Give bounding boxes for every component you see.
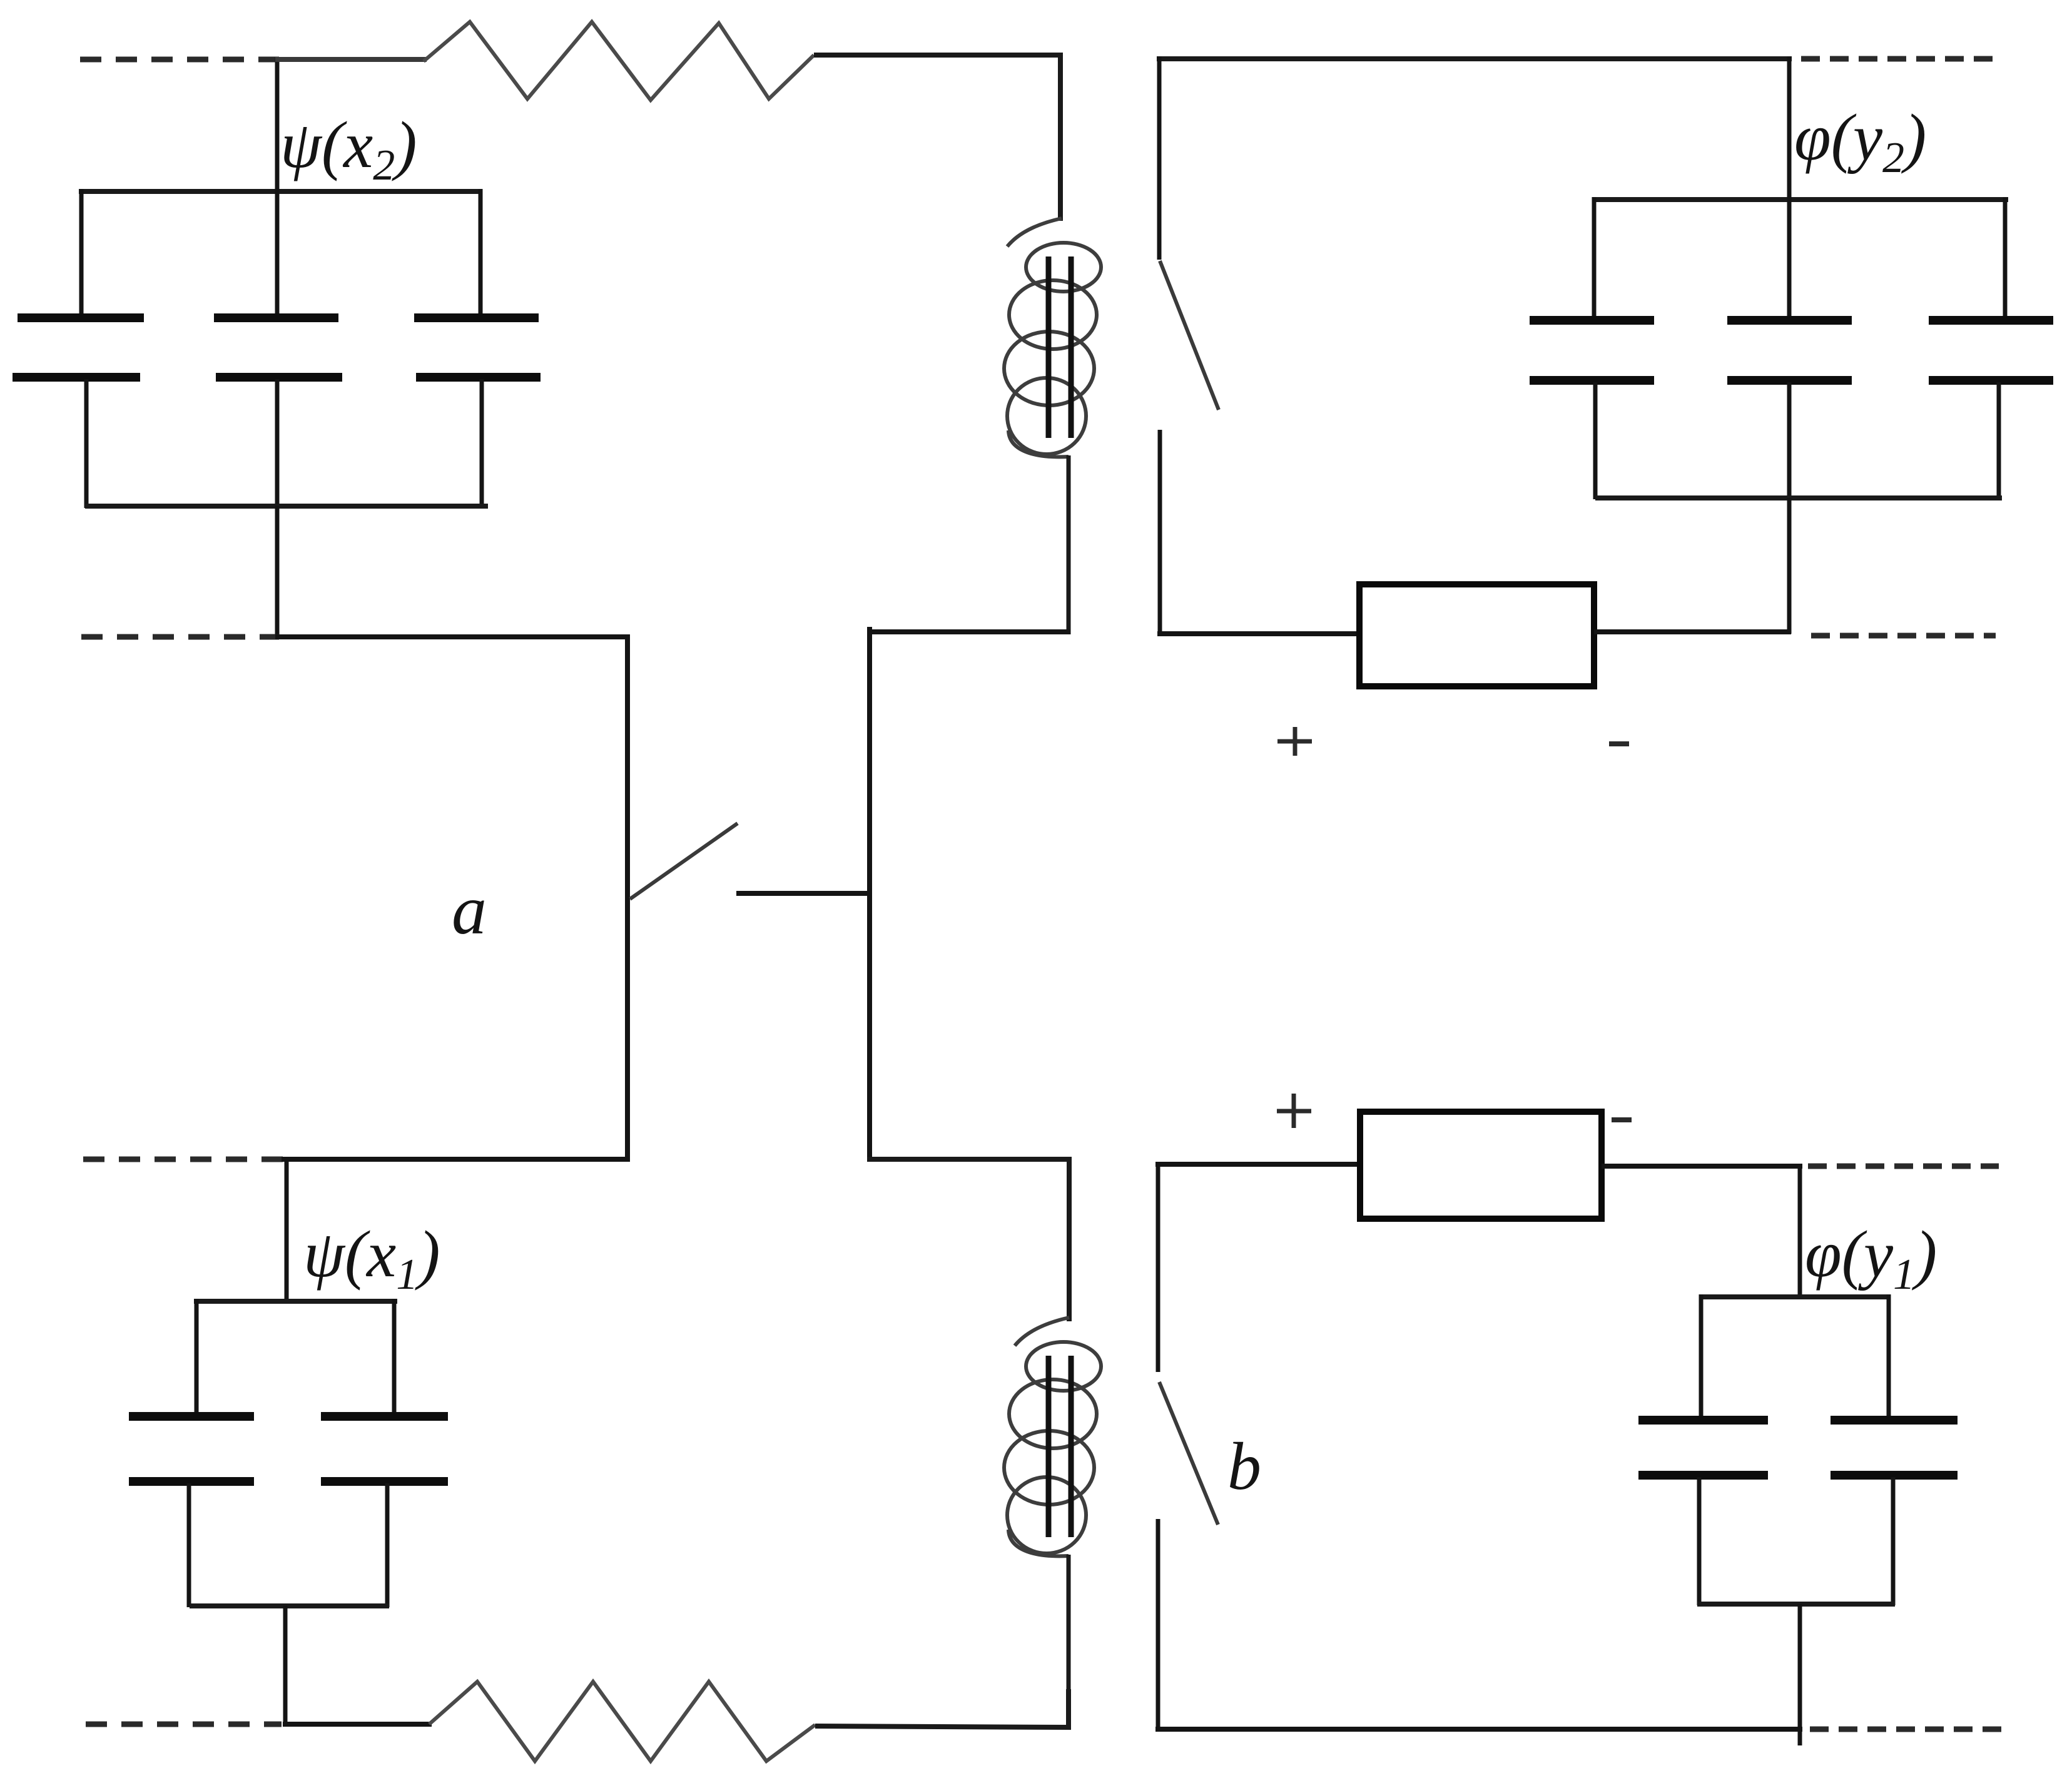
- wire (phi(y2) bottom lead): [1787, 498, 1792, 634]
- capacitor C1: [13, 189, 144, 508]
- svg-text:ψ(x2): ψ(x2): [280, 108, 417, 190]
- wire (top bus, node to resistor): [275, 57, 427, 62]
- svg-text:φ(y2): φ(y2): [1794, 101, 1926, 182]
- wire (dashed continuation, top-right): [1801, 56, 1997, 62]
- wire (bank top bus): [194, 1299, 397, 1304]
- label - (box 2): [1612, 1117, 1632, 1122]
- wire (dashed continuation, bottom-left): [86, 1722, 282, 1727]
- wire (box 2 to phi(y1) lead): [1602, 1164, 1802, 1169]
- label b: [1227, 1430, 1261, 1504]
- label phi(y2): [1794, 101, 1926, 182]
- wire (inductor L2 bottom lead): [1067, 1555, 1071, 1729]
- label psi(x2): [280, 108, 417, 190]
- wire (switch a right rail to inductor L2 corner): [867, 1159, 1069, 1321]
- capacitor C4: [1530, 197, 1654, 499]
- label phi(y1): [1805, 1217, 1937, 1299]
- label - (box 1): [1609, 741, 1629, 746]
- resistor R1: [424, 22, 814, 100]
- wire (bank bottom bus): [85, 504, 488, 509]
- capacitor C8: [321, 1299, 448, 1607]
- box (resistive element 2): [1360, 1112, 1602, 1219]
- wire (switch a right rail to inductor L1): [867, 629, 1070, 634]
- switch b: [1158, 1162, 1218, 1732]
- wire (dashed continuation, left): [81, 634, 279, 640]
- wire (bank bottom bus): [1697, 1602, 1895, 1607]
- wire (psi(x1) bottom lead): [283, 1606, 288, 1726]
- wire (bank top bus): [1699, 1294, 1891, 1299]
- wire (bank bottom bus): [190, 1603, 389, 1608]
- node phi(y1) top junction: [1798, 1166, 1802, 1299]
- wire (box 1 to phi(y2) lead): [1594, 629, 1791, 634]
- wire (resistor R1 to inductor L1 corner): [814, 55, 1060, 221]
- inductor L2: [1004, 1318, 1101, 1556]
- wire (dashed continuation, left): [83, 1157, 283, 1162]
- capacitor C6: [1929, 197, 2053, 499]
- label psi(x1): [303, 1217, 440, 1299]
- wire (switch b bottom bus): [1155, 1727, 1802, 1732]
- wire (bank bottom bus): [1595, 495, 2002, 500]
- wire (dashed continuation, right): [1811, 633, 1996, 639]
- wire (inductor L1 bottom lead): [1067, 455, 1071, 634]
- wire (dashed continuation, right): [1808, 1164, 1999, 1169]
- label a: [452, 871, 487, 949]
- box (resistive element 1): [1359, 584, 1594, 686]
- inductor L1: [1004, 218, 1101, 457]
- svg-text:φ(y1): φ(y1): [1805, 1217, 1937, 1299]
- switch a: [627, 627, 871, 1162]
- wire (bank top bus): [79, 189, 482, 194]
- wire (left bus to switch a): [275, 634, 629, 639]
- node psi(x1) top junction: [285, 1159, 289, 1303]
- node phi(y2) top junction: [1787, 56, 1792, 201]
- capacitor C3: [414, 189, 541, 508]
- wire (switch b to box 2): [1155, 1162, 1363, 1167]
- label + (box 2): [1277, 1094, 1311, 1128]
- capacitor C9: [1638, 1294, 1768, 1605]
- wire (bus to resistor R2): [283, 1722, 432, 1727]
- wire (bus to switch a left rail): [282, 1157, 630, 1162]
- wire (resistor R2 to inductor L2 corner): [815, 1689, 1069, 1727]
- wire (dashed continuation, bottom-right): [1810, 1727, 2002, 1732]
- capacitor C5: [1727, 197, 1852, 499]
- switch S1 (upper right, open): [1159, 56, 1219, 636]
- wire (dashed continuation, top-left): [80, 57, 279, 63]
- svg-text:ψ(x1): ψ(x1): [303, 1217, 440, 1299]
- node psi(x2) top junction: [275, 57, 280, 194]
- capacitor C10: [1831, 1294, 1958, 1605]
- capacitor C7: [129, 1299, 254, 1607]
- svg-text:a: a: [452, 871, 487, 949]
- capacitor C2: [214, 189, 342, 508]
- wire (switch S1 to box 1): [1157, 631, 1362, 636]
- svg-text:b: b: [1227, 1430, 1261, 1504]
- wire (phi(y1) bottom lead): [1798, 1604, 1802, 1745]
- wire (bank top bus): [1592, 197, 2008, 202]
- label + (box 1): [1277, 727, 1312, 756]
- wire (psi(x2) bottom lead): [275, 506, 280, 639]
- wire (top-right bus): [1157, 56, 1792, 61]
- resistor R2: [429, 1682, 815, 1761]
